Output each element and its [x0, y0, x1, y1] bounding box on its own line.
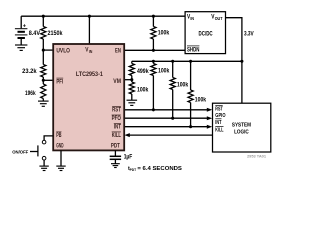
node: rail junction at UVLO divider [42, 15, 45, 18]
node: RST pullup junction [152, 60, 155, 63]
wire: rail to R4 [152, 16, 154, 26]
svg-text:3.3V: 3.3V [244, 31, 254, 37]
wire: pushbutton to ground [43, 160, 45, 166]
wire: 3.3V distribution line [132, 60, 242, 62]
svg-text:DC/DC: DC/DC [199, 31, 214, 37]
wire: EN to SHDN line [124, 49, 185, 51]
resistor R4 100k EN pullup [151, 27, 156, 40]
svg-text:100k: 100k [137, 87, 149, 93]
resistor R3 196k [41, 84, 46, 99]
node: EN/pullup junction [152, 49, 155, 52]
battery BT1 8.4V [15, 16, 28, 45]
svg-text:PFO: PFO [112, 116, 122, 122]
ground: VM divider [127, 100, 138, 105]
wire: INT line [124, 126, 207, 128]
svg-text:PFI: PFI [56, 79, 63, 85]
svg-text:OUT: OUT [215, 16, 223, 21]
ground: battery [15, 45, 27, 50]
svg-text:SHDN: SHDN [187, 47, 199, 53]
wire: R1 to R2 through UVLO node [42, 39, 44, 65]
arrow: RST into logic [207, 108, 212, 112]
pin VOUT (DC/DC) [211, 15, 223, 21]
wire: UVLO stub to IC [43, 49, 53, 51]
svg-text:= 6.4 SECONDS: = 6.4 SECONDS [137, 166, 182, 172]
svg-text:KILL: KILL [215, 128, 224, 134]
pin VIN (DC/DC) [187, 15, 194, 21]
svg-text:PDT: PDT [130, 167, 137, 172]
resistor R2 23.2k [41, 65, 46, 78]
svg-text:499k: 499k [137, 69, 149, 75]
svg-text:GPIO: GPIO [215, 113, 225, 119]
wire: capacitor to ground [114, 159, 116, 163]
arrow: KILL into LTC2953 [124, 133, 129, 137]
svg-text:KILL: KILL [112, 133, 121, 139]
svg-text:IN: IN [89, 49, 93, 54]
block DC/DC converter [185, 12, 225, 54]
svg-text:196k: 196k [25, 91, 36, 97]
block SYSTEM LOGIC [213, 103, 271, 152]
wire: RST line [124, 109, 207, 111]
node: VM tap [130, 78, 133, 81]
wire: PFO to GPIO line [124, 117, 207, 119]
svg-text:100k: 100k [158, 69, 170, 75]
svg-text:PDT: PDT [111, 143, 120, 149]
node: rail junction at 100k pullup [152, 15, 155, 18]
wire: R3 to ground [42, 99, 44, 102]
wire: R5 to R6 through VM node [131, 76, 133, 83]
wire: VM stub to IC [124, 79, 132, 81]
svg-text:GND: GND [56, 144, 64, 150]
node: PFO pullup junction [171, 60, 174, 63]
svg-text:INT: INT [215, 120, 222, 126]
wire: R6 to ground [131, 94, 133, 100]
svg-text:ON/OFF: ON/OFF [12, 150, 28, 155]
svg-text:100k: 100k [158, 31, 170, 37]
svg-text:EN: EN [115, 48, 121, 54]
node: VOUT line junction [240, 60, 243, 63]
ground: PDT capacitor [111, 164, 120, 168]
wire: VOUT to system logic 3.3V [226, 18, 242, 104]
ground: pushbutton [39, 166, 48, 170]
resistor R1 2150k [41, 27, 46, 40]
arrow: INT into logic [207, 125, 212, 129]
svg-text:LOGIC: LOGIC [234, 129, 249, 135]
wire: PDT to capacitor [114, 150, 116, 156]
wire: rail to R1 [42, 16, 44, 26]
svg-text:1µF: 1µF [124, 155, 133, 161]
node: UVLO tap [42, 49, 45, 52]
resistor R5 499k [131, 61, 133, 63]
pin VIN (IC) [85, 48, 92, 54]
wire: VIN pin drop [88, 16, 90, 44]
svg-text:VM: VM [113, 79, 121, 85]
svg-text:UVLO: UVLO [56, 48, 70, 54]
wire: PFI stub to IC [43, 79, 53, 81]
label: tPDT = 6.4 SECONDS [128, 166, 182, 172]
node: PFI tap [42, 79, 45, 82]
wire: GND pin to ground [60, 150, 62, 166]
wire: KILL line [129, 134, 213, 136]
svg-text:8.4V: 8.4V [29, 31, 40, 37]
node: rail junction at VIN pin [88, 15, 91, 18]
svg-text:INT: INT [114, 125, 121, 131]
svg-text:100k: 100k [195, 97, 207, 103]
svg-text:PB: PB [56, 133, 62, 139]
resistor R7 100k RST pullup [152, 61, 154, 63]
svg-text:IN: IN [190, 16, 194, 21]
resistor R9 100k INT pullup [190, 61, 192, 90]
ground: 196k [38, 101, 49, 106]
wire: R2 to R3 through PFI node [42, 77, 44, 84]
svg-text:2150k: 2150k [48, 31, 64, 37]
ground: IC GND [56, 166, 65, 170]
wire: top VIN rail [21, 15, 185, 17]
capacitor C1 1uF [110, 156, 121, 159]
resistor R8 100k PFO pullup [172, 61, 174, 77]
svg-text:2953 TA01: 2953 TA01 [247, 154, 266, 158]
IC U1 LTC2953-1 [53, 44, 124, 150]
svg-text:23.2k: 23.2k [22, 69, 37, 75]
arrow: GPIO into logic [207, 116, 212, 120]
wire: R4 to EN line [152, 39, 154, 50]
svg-text:RST: RST [215, 107, 223, 113]
svg-text:LTC2953-1: LTC2953-1 [76, 72, 104, 78]
node: INT pullup junction [189, 60, 192, 63]
wire: PB to pushbutton [44, 136, 53, 140]
svg-text:RST: RST [112, 108, 121, 114]
svg-text:100k: 100k [177, 82, 189, 88]
pushbutton SW1 ON/OFF [30, 140, 46, 160]
svg-text:SYSTEM: SYSTEM [232, 123, 251, 129]
resistor R6 100k VM divider [129, 82, 134, 94]
